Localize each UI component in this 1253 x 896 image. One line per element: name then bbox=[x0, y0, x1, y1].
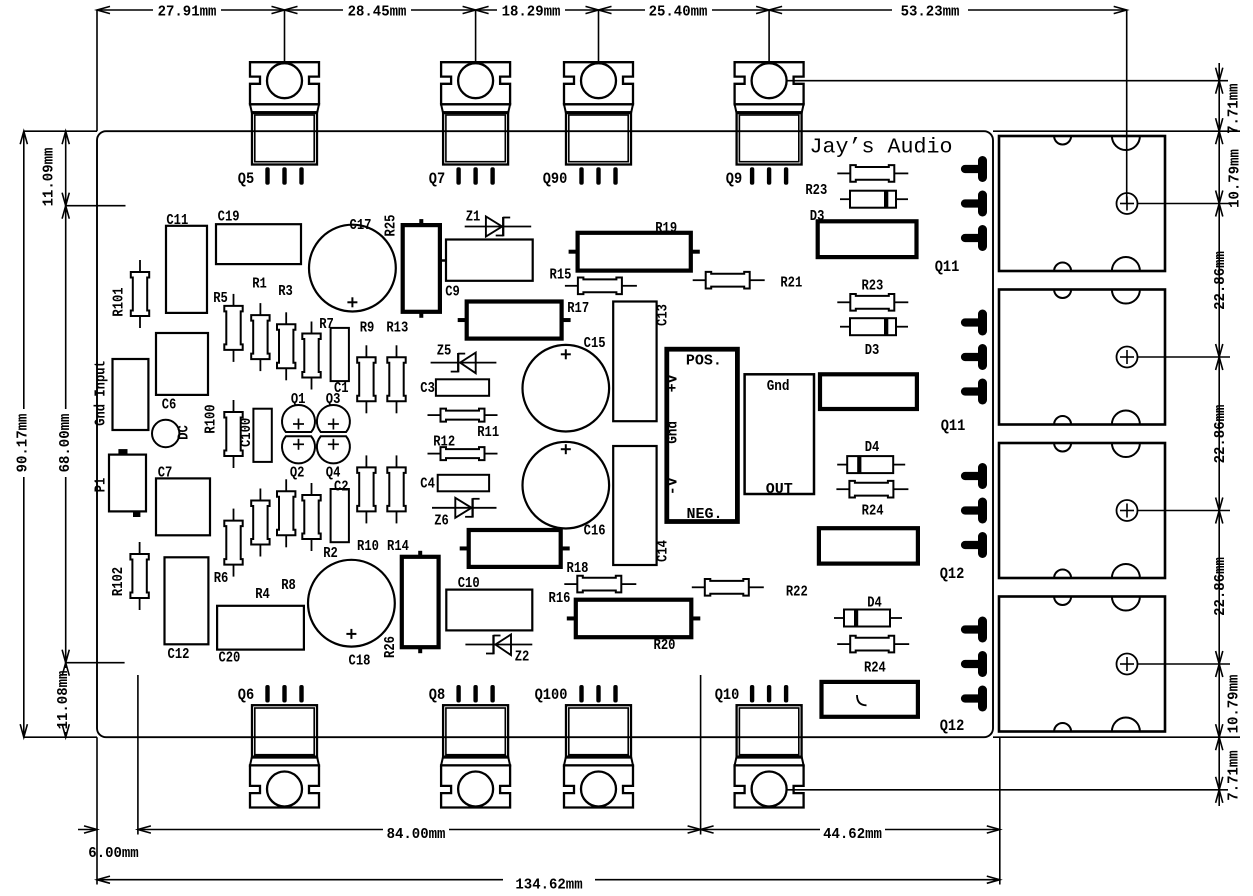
transistor Q3 bbox=[317, 405, 350, 432]
resistor R102 bbox=[139, 542, 141, 554]
pad block Q12b bbox=[822, 682, 918, 717]
svg-text:C4: C4 bbox=[420, 476, 435, 493]
capacitor C100 bbox=[253, 409, 271, 462]
resistor R18 body bbox=[469, 530, 561, 567]
dimension line 84.00mm bbox=[138, 829, 383, 831]
svg-text:7.71mm: 7.71mm bbox=[1225, 83, 1242, 133]
svg-text:R9: R9 bbox=[360, 320, 375, 337]
PCB board outline bbox=[97, 131, 993, 737]
svg-text:C20: C20 bbox=[218, 650, 240, 667]
leader line Q9 hole bbox=[787, 80, 1228, 82]
svg-text:25.40mm: 25.40mm bbox=[649, 4, 708, 21]
svg-text:C7: C7 bbox=[158, 465, 173, 482]
power package Q12b bbox=[999, 597, 1165, 732]
svg-text:R6: R6 bbox=[214, 570, 229, 587]
svg-text:R3: R3 bbox=[278, 283, 293, 300]
capacitor C20 bbox=[217, 606, 304, 650]
resistor R1 bbox=[259, 303, 261, 315]
resistor R26 bbox=[402, 557, 439, 647]
extension line board bottom right bbox=[993, 736, 1240, 738]
capacitor C9 bbox=[446, 240, 533, 281]
power package Q12a bbox=[999, 443, 1165, 578]
capacitor C6 bbox=[156, 333, 208, 395]
zener Z6 bbox=[432, 507, 497, 509]
resistor R25 bbox=[403, 225, 440, 312]
dimension line 27.91mm segment bbox=[97, 9, 153, 11]
svg-text:28.45mm: 28.45mm bbox=[348, 4, 407, 21]
tick line 11.09 offset bbox=[66, 205, 126, 207]
tick line 11.08 offset bbox=[66, 662, 125, 664]
leader line hole Q11a bbox=[1138, 203, 1231, 205]
svg-text:R18: R18 bbox=[567, 560, 589, 577]
svg-text:R102: R102 bbox=[110, 567, 127, 596]
svg-text:R21: R21 bbox=[780, 275, 802, 292]
capacitor C7 bbox=[156, 478, 210, 535]
svg-text:R23: R23 bbox=[861, 278, 883, 295]
svg-text:Q100: Q100 bbox=[535, 686, 568, 704]
leader line hole Q12b bbox=[1138, 663, 1231, 665]
leader line hole Q12a bbox=[1138, 510, 1231, 512]
resistor R12 bbox=[428, 453, 441, 455]
extension line Q90 center bbox=[598, 10, 600, 63]
svg-text:R2: R2 bbox=[323, 545, 338, 562]
capacitor C10 bbox=[446, 590, 532, 631]
dimension line 18.29mm segment bbox=[476, 9, 497, 11]
svg-text:11.08mm: 11.08mm bbox=[55, 671, 72, 730]
svg-text:+V: +V bbox=[665, 374, 682, 392]
extension line board left bottom bbox=[96, 737, 98, 884]
extension line x1000 bbox=[999, 737, 1001, 884]
svg-text:C12: C12 bbox=[168, 646, 190, 663]
extension line x700 bbox=[700, 675, 702, 835]
svg-text:Q5: Q5 bbox=[238, 170, 254, 188]
svg-text:Q11: Q11 bbox=[941, 417, 966, 435]
dimension line 25.40mm segment bbox=[599, 9, 646, 11]
svg-text:POS.: POS. bbox=[686, 353, 722, 370]
resistor R24 b bbox=[837, 643, 850, 645]
resistor R10 bbox=[365, 455, 367, 467]
transistor Q2 bbox=[282, 436, 315, 463]
top dimension arrows bbox=[97, 6, 110, 13]
pad block Q11b bbox=[820, 374, 917, 409]
svg-text:Q6: Q6 bbox=[238, 686, 254, 704]
dimension line 28.45mm segment bbox=[285, 9, 344, 11]
capacitor C15 bbox=[523, 345, 610, 432]
svg-text:Q3: Q3 bbox=[326, 391, 341, 408]
svg-text:R26: R26 bbox=[382, 636, 399, 658]
extension line top left bbox=[24, 130, 97, 132]
svg-text:22.86mm: 22.86mm bbox=[1212, 557, 1229, 616]
svg-text:R8: R8 bbox=[281, 577, 296, 594]
dimension line 11.09mm bbox=[65, 131, 67, 206]
svg-text:Gnd: Gnd bbox=[767, 378, 790, 395]
svg-text:Q90: Q90 bbox=[543, 170, 568, 188]
svg-text:68.00mm: 68.00mm bbox=[57, 414, 74, 473]
svg-text:NEG.: NEG. bbox=[687, 506, 723, 523]
dimension line 68.00mm bbox=[65, 206, 67, 409]
svg-text:R101: R101 bbox=[111, 287, 128, 316]
svg-text:R16: R16 bbox=[549, 590, 571, 607]
svg-text:R22: R22 bbox=[786, 584, 808, 601]
svg-text:44.62mm: 44.62mm bbox=[823, 826, 882, 843]
hole DC bbox=[152, 420, 179, 447]
resistor R6 bbox=[233, 509, 235, 521]
trimmer P1 bbox=[109, 455, 146, 512]
capacitor C13 bbox=[613, 302, 656, 422]
svg-text:R13: R13 bbox=[386, 320, 408, 337]
transistor Q8 bbox=[441, 765, 510, 807]
svg-text:11.09mm: 11.09mm bbox=[41, 148, 58, 207]
svg-text:R19: R19 bbox=[655, 220, 677, 237]
svg-text:R24: R24 bbox=[862, 502, 884, 519]
svg-text:10.79mm: 10.79mm bbox=[1226, 675, 1243, 734]
capacitor C17 bbox=[309, 225, 396, 312]
resistor R14 bbox=[396, 455, 398, 467]
svg-text:Z2: Z2 bbox=[515, 649, 530, 666]
svg-text:C11: C11 bbox=[166, 212, 188, 229]
svg-text:Q2: Q2 bbox=[290, 465, 305, 482]
capacitor C16 bbox=[523, 442, 610, 529]
svg-text:R5: R5 bbox=[213, 290, 228, 307]
resistor R17 bbox=[467, 302, 562, 339]
svg-text:53.23mm: 53.23mm bbox=[901, 4, 960, 21]
svg-text:90.17mm: 90.17mm bbox=[15, 414, 32, 473]
svg-text:R24: R24 bbox=[864, 659, 886, 676]
resistor R23 a bbox=[837, 172, 850, 174]
pad block Q12a bbox=[819, 528, 918, 563]
svg-text:C6: C6 bbox=[162, 397, 177, 414]
extension line board top right bbox=[993, 130, 1240, 132]
terminal block OUT bbox=[745, 374, 814, 494]
capacitor C11 bbox=[166, 226, 207, 313]
svg-text:R7: R7 bbox=[319, 316, 334, 333]
svg-text:Jay’s Audio: Jay’s Audio bbox=[810, 136, 953, 160]
svg-text:Gnd: Gnd bbox=[665, 421, 682, 444]
svg-text:Z5: Z5 bbox=[437, 343, 452, 360]
zener Z1 bbox=[465, 226, 532, 228]
resistor R3 bbox=[285, 312, 287, 324]
transistor Q4 bbox=[317, 436, 350, 463]
svg-text:C14: C14 bbox=[655, 540, 672, 562]
svg-text:84.00mm: 84.00mm bbox=[387, 826, 446, 843]
svg-text:Q12: Q12 bbox=[940, 717, 965, 735]
dimension line 11.08mm bbox=[65, 663, 67, 668]
connector Gnd Input bbox=[113, 359, 149, 430]
capacitor C3 bbox=[436, 379, 489, 396]
svg-text:7.71mm: 7.71mm bbox=[1225, 750, 1242, 800]
svg-text:DC: DC bbox=[176, 425, 193, 440]
resistor R20 bbox=[576, 600, 692, 638]
resistor R2 bbox=[311, 483, 313, 495]
svg-text:D3: D3 bbox=[865, 342, 880, 359]
transistor Q7 bbox=[441, 62, 510, 104]
svg-text:R100: R100 bbox=[203, 404, 220, 433]
dimension line 53.23mm segment bbox=[769, 9, 892, 11]
svg-text:C100: C100 bbox=[238, 418, 255, 447]
svg-text:R1: R1 bbox=[252, 276, 267, 293]
resistor R21 bbox=[693, 279, 706, 281]
svg-text:18.29mm: 18.29mm bbox=[502, 4, 561, 21]
resistor R13 bbox=[396, 345, 398, 357]
resistor R22 bbox=[692, 586, 705, 588]
svg-text:6.00mm: 6.00mm bbox=[88, 845, 138, 862]
svg-text:R12: R12 bbox=[433, 433, 455, 450]
svg-text:C15: C15 bbox=[584, 335, 606, 352]
svg-text:C10: C10 bbox=[458, 575, 480, 592]
svg-text:-V: -V bbox=[665, 477, 682, 495]
diode D3 a bbox=[840, 198, 850, 200]
svg-text:R10: R10 bbox=[357, 538, 379, 555]
transistor Q1 bbox=[282, 405, 315, 432]
leader line Q10 hole bbox=[787, 789, 1228, 791]
transistor Q10 bbox=[735, 765, 804, 807]
transistor Q9 bbox=[735, 62, 804, 104]
svg-text:R25: R25 bbox=[383, 215, 400, 237]
transistor Q6 bbox=[250, 765, 319, 807]
svg-text:22.86mm: 22.86mm bbox=[1212, 405, 1229, 464]
svg-text:C18: C18 bbox=[349, 653, 371, 670]
capacitor C12 bbox=[165, 557, 209, 644]
dimension line 44.62mm bbox=[701, 829, 820, 831]
dimension 6.00mm arrow bbox=[78, 829, 97, 831]
resistor R100 bbox=[233, 400, 235, 412]
diode D4 a bbox=[837, 464, 847, 466]
extension line Q5 center bbox=[284, 10, 286, 63]
svg-text:Q12: Q12 bbox=[940, 565, 965, 583]
svg-text:R15: R15 bbox=[550, 267, 572, 284]
resistor R11 bbox=[428, 414, 441, 416]
terminal block POS NEG bbox=[667, 349, 738, 521]
resistor R15 bbox=[565, 285, 578, 287]
svg-text:C17: C17 bbox=[350, 217, 372, 234]
capacitor C18 bbox=[308, 560, 395, 647]
svg-text:10.79mm: 10.79mm bbox=[1227, 149, 1244, 208]
dimension line 134.62mm bbox=[97, 879, 503, 881]
svg-text:C3: C3 bbox=[420, 380, 435, 397]
resistor R5 bbox=[233, 294, 235, 306]
capacitor C4 bbox=[438, 475, 489, 492]
resistor R9 bbox=[365, 345, 367, 357]
svg-text:Q1: Q1 bbox=[291, 391, 306, 408]
svg-text:OUT: OUT bbox=[766, 481, 793, 498]
svg-text:C19: C19 bbox=[218, 209, 240, 226]
extension line board left top bbox=[96, 10, 98, 131]
svg-text:C9: C9 bbox=[445, 283, 460, 300]
resistor R23 b bbox=[837, 301, 850, 303]
svg-text:P1: P1 bbox=[92, 478, 109, 493]
right dimension chain bbox=[1218, 63, 1220, 806]
svg-text:D4: D4 bbox=[865, 439, 880, 456]
resistor R19 bbox=[578, 233, 691, 271]
svg-text:R20: R20 bbox=[654, 637, 676, 654]
diode D3 b bbox=[840, 326, 850, 328]
resistor R16 bbox=[564, 583, 577, 585]
extension line bottom left bbox=[24, 736, 97, 738]
diode D4 b bbox=[834, 617, 844, 619]
svg-text:Z1: Z1 bbox=[466, 209, 481, 226]
svg-text:R23: R23 bbox=[805, 182, 827, 199]
resistor R7 bbox=[311, 322, 313, 334]
svg-text:Q11: Q11 bbox=[935, 258, 960, 276]
svg-text:C13: C13 bbox=[655, 304, 672, 326]
capacitor C19 bbox=[216, 224, 301, 264]
svg-text:Q7: Q7 bbox=[429, 170, 445, 188]
svg-text:Q8: Q8 bbox=[429, 686, 445, 704]
extension line package hole column bbox=[1126, 10, 1128, 204]
resistor R8 bbox=[285, 479, 287, 491]
power package Q11a bbox=[999, 136, 1165, 271]
svg-text:C16: C16 bbox=[584, 523, 606, 540]
svg-text:D4: D4 bbox=[867, 594, 882, 611]
power package Q11b bbox=[999, 290, 1165, 425]
extension line Q9 center bbox=[768, 10, 770, 63]
svg-text:Gnd Input: Gnd Input bbox=[93, 360, 110, 426]
dimension line 90.17mm bbox=[23, 131, 25, 409]
resistor R4 bbox=[259, 489, 261, 501]
pad block Q11a bbox=[818, 221, 917, 257]
transistor Q5 bbox=[250, 62, 319, 104]
resistor R24 a bbox=[836, 488, 849, 490]
transistor Q90 bbox=[564, 62, 633, 104]
extension line Q7 center bbox=[475, 10, 477, 63]
svg-text:22.86mm: 22.86mm bbox=[1212, 251, 1229, 310]
svg-text:R17: R17 bbox=[567, 300, 589, 317]
svg-text:Q4: Q4 bbox=[326, 465, 341, 482]
svg-text:R11: R11 bbox=[477, 424, 499, 441]
svg-text:Q10: Q10 bbox=[715, 686, 740, 704]
svg-text:27.91mm: 27.91mm bbox=[158, 4, 217, 21]
capacitor C14 bbox=[613, 446, 656, 565]
zener Z5 bbox=[431, 362, 497, 364]
svg-text:Q9: Q9 bbox=[726, 170, 742, 188]
svg-text:R4: R4 bbox=[255, 586, 270, 603]
zener Z2 bbox=[465, 644, 532, 646]
capacitor C2 bbox=[331, 489, 349, 542]
svg-text:R14: R14 bbox=[387, 538, 409, 555]
capacitor C1 bbox=[331, 328, 349, 381]
svg-text:134.62mm: 134.62mm bbox=[515, 877, 582, 894]
svg-text:Z6: Z6 bbox=[434, 512, 449, 529]
leader line hole Q11b bbox=[1138, 356, 1231, 358]
resistor R101 bbox=[139, 260, 141, 272]
extension line x138 bbox=[137, 675, 139, 835]
transistor Q100 bbox=[564, 765, 633, 807]
